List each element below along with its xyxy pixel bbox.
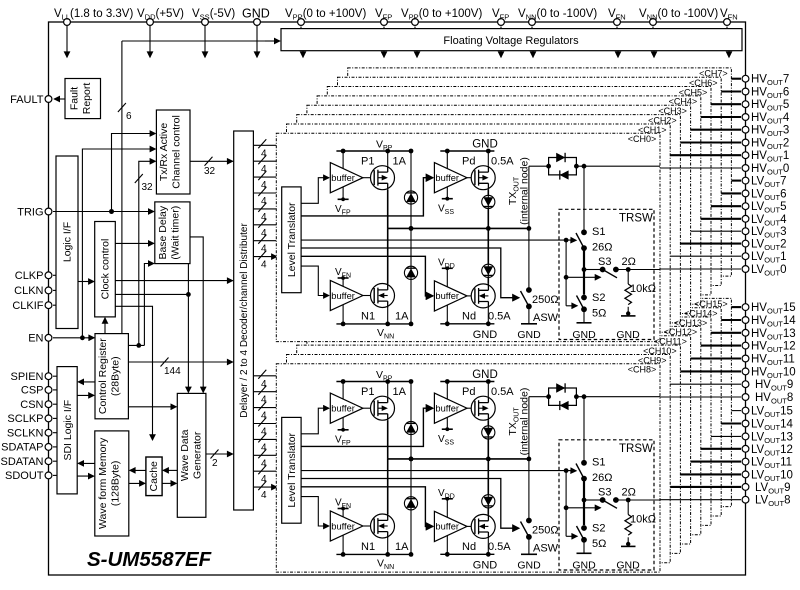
pin VPP top	[412, 19, 419, 26]
transistor N1 (NMOS 1A)	[371, 284, 395, 308]
wire: HVOUT7 stub	[731, 78, 741, 80]
svg-text:Base Delay: Base Delay	[157, 205, 169, 259]
svg-text:CLKN: CLKN	[14, 285, 43, 297]
svg-text:250Ω: 250Ω	[532, 294, 559, 306]
svg-text:SDATAN: SDATAN	[1, 456, 44, 468]
wire: 4-bit bus bottom ch2	[253, 407, 276, 409]
wire: N1 gate	[363, 295, 374, 297]
wire: Control Register to SDI Logic I/F	[78, 381, 95, 383]
wire: pin stub to Floating Voltage Regulators	[414, 27, 416, 29]
wire: Wave Data Generator to Cache	[163, 469, 177, 471]
damping diode below Pd	[482, 195, 495, 208]
pin VFP top	[381, 19, 388, 26]
pin LVOUT15	[742, 407, 749, 414]
block: Cache	[146, 457, 162, 496]
block: Tx/Rx Active Channel control	[156, 110, 190, 194]
pin VLL top	[64, 19, 71, 26]
wire: regulator output arrow	[653, 51, 655, 58]
pin LVOUT14	[742, 420, 749, 427]
pin HVOUT2	[742, 139, 749, 146]
wire: LVOUT9 stub	[670, 486, 741, 488]
bus slash 144	[161, 358, 169, 367]
wire: S3 to LV output node	[616, 269, 660, 271]
wire: Logic I/F to Clock control	[78, 281, 94, 283]
svg-text:GND: GND	[616, 329, 640, 341]
resistor 10k	[627, 270, 629, 285]
pin SCLKP	[45, 415, 52, 422]
wire: 4-bit bus top ch0	[253, 144, 276, 146]
pin HVOUT8	[742, 394, 749, 401]
wire: TX node to N1 drain	[387, 228, 389, 283]
wire: 4-bit bus bottom ch4	[253, 438, 276, 440]
wire: Wave form Memory to SDI Logic I/F	[78, 462, 95, 464]
wire: HVOUT5 stub	[711, 103, 741, 105]
svg-text:<CH15>: <CH15>	[694, 299, 728, 309]
svg-text:<CH9>: <CH9>	[638, 355, 667, 365]
wire: 4-bit bus bottom front channel	[253, 486, 277, 488]
svg-text:Delayer / 2 to 4 Decoder/chann: Delayer / 2 to 4 Decoder/channel Distrib…	[239, 223, 250, 418]
block: Logic I/F	[56, 156, 78, 329]
rail: V_PP top	[336, 150, 411, 152]
wire: 2-bit bus Wave Data Generator to Delayer	[206, 453, 233, 455]
svg-text:SCLKN: SCLKN	[7, 428, 44, 440]
bus slash 2	[211, 450, 219, 459]
svg-text:S3: S3	[598, 256, 611, 268]
wire: LVOUT10 stub	[680, 473, 741, 475]
wire: HVOUT9 stub	[670, 383, 741, 385]
pin HVOUT11	[742, 355, 749, 362]
svg-text:<CH5>: <CH5>	[679, 87, 708, 97]
wire: LVOUT6 stub	[721, 192, 741, 194]
wire: LT to N1 buffer	[301, 266, 329, 295]
svg-text:Wave Data: Wave Data	[179, 429, 191, 481]
switch S1 top contact	[581, 229, 587, 235]
switch ASW blade	[521, 291, 529, 306]
wire: 4-bit bus top front channel	[253, 256, 277, 258]
wire: SPI pin stub	[53, 417, 57, 419]
wire: supply arrow into chip	[66, 26, 68, 58]
svg-text:<CH1>: <CH1>	[638, 125, 667, 135]
wire: Clock control to Delayer	[115, 280, 232, 282]
wire: regulator output arrow	[500, 51, 502, 58]
pin VNN top	[650, 19, 657, 26]
svg-text:1A: 1A	[395, 311, 409, 323]
wire: LT to switch S1 control	[301, 239, 575, 241]
wire: regulator output arrow	[302, 51, 304, 58]
svg-text:GND: GND	[242, 7, 270, 21]
wire: Cache to Wave Data Generator	[162, 482, 176, 484]
wire: HVOUT13 stub	[711, 332, 741, 334]
svg-text:Floating Voltage Regulators: Floating Voltage Regulators	[443, 35, 579, 47]
svg-text:2: 2	[212, 458, 218, 469]
node: S3 tap	[582, 267, 587, 272]
block: Wave form Memory (128Byte)	[95, 431, 129, 536]
svg-text:CSP: CSP	[21, 385, 44, 397]
svg-text:SPIEN: SPIEN	[10, 371, 43, 383]
wire: HVOUT0 stub	[660, 167, 741, 169]
svg-text:<CH11>: <CH11>	[654, 337, 687, 347]
wire: TX node down to ASW	[528, 228, 530, 287]
svg-text:5Ω: 5Ω	[592, 308, 606, 320]
pin LVOUT8	[742, 496, 749, 503]
wire: LVOUT13 stub	[711, 435, 741, 437]
wire: LVOUT4 stub	[701, 218, 741, 220]
svg-text:SDOUT: SDOUT	[5, 470, 44, 482]
wire: 4-bit bus top ch2	[253, 176, 276, 178]
svg-text:(28Byte): (28Byte)	[110, 356, 122, 396]
channel box CH13	[327, 317, 711, 525]
wire: SPI pin stub	[53, 460, 57, 462]
svg-text:32: 32	[204, 166, 216, 177]
pin SCLKN	[45, 429, 52, 436]
wire: SPI pin stub	[53, 403, 57, 405]
rail: V_NN bottom	[336, 323, 411, 325]
svg-text:GND: GND	[472, 139, 498, 151]
wire: CLKN stub	[53, 289, 57, 291]
ground bar 10k	[621, 315, 636, 317]
wire: LVOUT2 stub	[680, 243, 741, 245]
svg-text:1A: 1A	[393, 156, 407, 168]
wire: 6-bit bus horizontal to FVR	[122, 40, 279, 42]
supply tap V_DD	[442, 267, 453, 269]
svg-text:Clock control: Clock control	[100, 239, 112, 300]
svg-text:<CH6>: <CH6>	[689, 78, 718, 88]
wire: supply arrow into chip	[256, 26, 258, 58]
wire: Wave form Memory to Cache	[129, 482, 145, 484]
wire: HVOUT15 stub	[731, 306, 741, 308]
wire: P1 gate	[363, 177, 374, 179]
block: TRSW transmit/receive switch	[559, 209, 654, 339]
damping diode above Nd	[482, 264, 495, 277]
switch S1 bottom contact	[581, 245, 587, 251]
pin VNN top	[529, 19, 536, 26]
wire: pin stub to Floating Voltage Regulators	[726, 27, 728, 29]
wire: to back-to-back diodes	[529, 165, 549, 167]
wire: LVOUT0 stub	[660, 268, 741, 270]
pin CSP	[45, 387, 52, 394]
pin LVOUT6	[742, 190, 749, 197]
channel box CH11	[307, 336, 691, 544]
ground bar S2	[577, 322, 592, 324]
pin LVOUT3	[742, 228, 749, 235]
pin LVOUT11	[742, 458, 749, 465]
pin SPIEN	[45, 373, 52, 380]
pin HVOUT10	[742, 368, 749, 375]
wire: LVOUT5 stub	[711, 205, 741, 207]
wire: Clock control to Base Delay	[115, 242, 154, 244]
svg-text:GND: GND	[473, 329, 498, 341]
svg-text:<CH8>: <CH8>	[628, 365, 657, 375]
pin FAULT	[45, 96, 52, 103]
switch ASW top contact	[526, 287, 532, 293]
wire: HVOUT2 stub	[680, 141, 741, 143]
pin LVOUT2	[742, 240, 749, 247]
node: bus junction	[136, 343, 141, 348]
wire: regulator output arrow	[532, 51, 534, 58]
block: SDI Logic I/F	[57, 367, 77, 494]
svg-text:144: 144	[164, 366, 181, 377]
block: Delayer / 2 to 4 Decoder/channel Distributer	[234, 131, 254, 510]
svg-text:Nd: Nd	[462, 311, 476, 323]
wire: P1 drain to TX node	[387, 190, 389, 229]
channel box CH7	[348, 68, 732, 276]
wire: LVOUT14 stub	[721, 422, 741, 424]
channel box CH15	[348, 298, 732, 506]
pin HVOUT9	[742, 381, 749, 388]
wire: 144-bit bus Control Register to Delayer	[128, 361, 232, 363]
wire: pin stub to Floating Voltage Regulators	[531, 27, 533, 29]
wire: LVOUT15 stub	[731, 410, 741, 412]
wire: SDI Logic I/F to Wave form Memory	[77, 475, 94, 477]
wire: HVOUT6 stub	[721, 90, 741, 92]
wire: arrow into FVR left edge	[265, 40, 280, 42]
bus slash 6	[118, 103, 126, 112]
wire: LT to Nd buffer	[301, 256, 433, 296]
svg-text:Wave form Memory: Wave form Memory	[97, 437, 109, 529]
wire: LVOUT12 stub	[701, 448, 741, 450]
wire: 4-bit bus top ch4	[253, 208, 276, 210]
pin HVOUT13	[742, 329, 749, 336]
svg-text:CLKIF: CLKIF	[12, 300, 43, 312]
switch S3 left contact	[600, 267, 606, 273]
wire: Nd gate	[467, 295, 475, 297]
svg-text:EN: EN	[28, 333, 43, 345]
svg-text:TRIG: TRIG	[17, 206, 43, 218]
wire: S3 control	[566, 276, 600, 278]
node: TRIG branch	[109, 209, 114, 214]
wire: LVOUT7 stub	[731, 180, 741, 182]
svg-text:<CH7>: <CH7>	[699, 69, 728, 79]
block: Level Translator	[282, 187, 301, 293]
svg-text:S-UM5587EF: S-UM5587EF	[87, 548, 212, 571]
wire: HVOUT8 stub	[660, 396, 741, 398]
pin VPP top	[298, 19, 305, 26]
wire: switch control vertical	[565, 240, 567, 306]
wire: Pd gate	[467, 177, 475, 179]
wire: S2 to GND	[583, 309, 585, 323]
pin VFP top	[498, 19, 505, 26]
wire: Clock control / Base Delay bottom link	[115, 293, 188, 295]
block: Control Register (28Byte)	[95, 334, 128, 419]
wire: 4-bit bus top ch6	[253, 240, 276, 242]
block: Floating Voltage Regulators	[281, 29, 742, 51]
wire: CLKIF stub	[53, 304, 57, 306]
svg-text:Channel control: Channel control	[171, 115, 183, 189]
channel box CH12	[317, 326, 701, 534]
pin CLKP	[45, 272, 52, 279]
wire: HVOUT3 stub	[691, 129, 741, 131]
wire: LVOUT1 stub	[670, 255, 741, 257]
wire: EN to Tx/Rx control	[82, 149, 155, 338]
pin GND top	[254, 19, 261, 26]
svg-text:S2: S2	[592, 292, 605, 304]
block: Fault Report	[65, 79, 101, 119]
pin LVOUT4	[742, 215, 749, 222]
node: 10k resistor bottom	[626, 311, 630, 315]
wire: Tx/Rx 32-bit bus to Delayer	[190, 160, 233, 162]
svg-text:N1: N1	[361, 311, 375, 323]
pin LVOUT5	[742, 203, 749, 210]
wire: LVOUT11 stub	[691, 461, 741, 463]
wire: HVOUT14 stub	[721, 319, 741, 321]
block: Base Delay (Wait timer)	[155, 202, 190, 264]
wire: HVOUT11 stub	[691, 357, 741, 359]
svg-text:<CH2>: <CH2>	[648, 115, 677, 125]
svg-text:32: 32	[142, 182, 154, 193]
svg-text:SDI Logic I/F: SDI Logic I/F	[62, 400, 74, 461]
svg-text:2Ω: 2Ω	[622, 256, 636, 268]
wire: pin stub to Floating Voltage Regulators	[300, 27, 302, 29]
wire: Pd source to GND	[487, 151, 489, 166]
wire: 4-bit bus bottom ch6	[253, 470, 276, 472]
supply tap V_FN	[338, 277, 349, 279]
svg-text:Fault: Fault	[69, 87, 81, 110]
node: S1 control junction	[564, 238, 569, 243]
wire: Clock control down to Cache area arrow	[115, 306, 152, 440]
pin VFN top	[614, 19, 621, 26]
svg-text:<CH10>: <CH10>	[643, 346, 677, 356]
pin HVOUT12	[742, 342, 749, 349]
pin SDATAN	[45, 458, 52, 465]
pin VFN top	[724, 19, 731, 26]
wire: S2 control	[566, 305, 577, 307]
pin HVOUT6	[742, 88, 749, 95]
pin SDATAP	[45, 444, 52, 451]
wire: LT to Pd buffer	[301, 178, 433, 216]
wire: HV output node to box edge	[576, 165, 660, 167]
wire: Nd source to GND	[487, 308, 489, 324]
pin CLKN	[45, 287, 52, 294]
pin VSS top	[202, 19, 209, 26]
svg-text:Tx/Rx Active: Tx/Rx Active	[158, 123, 170, 182]
block: Clock control	[95, 222, 116, 317]
wire: Cache to Wave form Memory	[130, 469, 146, 471]
svg-text:<CH4>: <CH4>	[669, 97, 698, 107]
wire: 6-bit bus vertical	[121, 41, 123, 334]
pin HVOUT15	[742, 304, 749, 311]
node: EN branch	[80, 335, 85, 340]
svg-text:SDATAP: SDATAP	[1, 442, 43, 454]
wire: 4-bit bus bottom ch0	[253, 375, 276, 377]
svg-text:(internal node): (internal node)	[519, 157, 531, 225]
wire: Base Delay right to Wave Data Generator	[190, 237, 203, 393]
wire: CLKP stub	[53, 274, 57, 276]
wire: regulator output arrow	[416, 51, 418, 58]
wire: LT to P1 buffer	[301, 178, 329, 204]
wire: Control Register to Clock control	[104, 318, 106, 334]
svg-text:FAULT: FAULT	[10, 94, 44, 106]
switch S2 bottom contact	[581, 306, 587, 312]
wire: SPI pin stub	[53, 432, 57, 434]
wire: N1 buffer supply	[342, 278, 344, 324]
wire: 32-bit bus to Tx/Rx control	[139, 161, 156, 345]
switch ASW bottom contact	[526, 304, 532, 310]
channel box CH5	[327, 87, 711, 295]
transistor Nd (NMOS 0.5A)	[471, 284, 495, 308]
svg-text:<CH14>: <CH14>	[684, 309, 718, 319]
svg-text:Generator: Generator	[192, 431, 204, 479]
svg-text:CLKP: CLKP	[15, 270, 44, 282]
switch S2 top contact	[581, 295, 587, 301]
svg-text:GND: GND	[517, 329, 541, 341]
svg-text:CSN: CSN	[20, 399, 43, 411]
svg-text:<CH12>: <CH12>	[664, 327, 698, 337]
wire: TRIG overlay	[53, 211, 153, 213]
switch S3 blade	[603, 270, 617, 278]
wire: pin stub to Floating Voltage Regulators	[652, 27, 654, 29]
pin HVOUT5	[742, 101, 749, 108]
channel box CH10	[297, 345, 681, 553]
wire: LVOUT8 stub	[660, 499, 741, 501]
ground bar ASW	[521, 323, 537, 325]
svg-text:P1: P1	[361, 156, 374, 168]
pin TRIG	[45, 208, 52, 215]
wire: SPI pin stub	[53, 474, 57, 476]
wire: HVOUT4 stub	[701, 116, 741, 118]
svg-text:6: 6	[126, 111, 132, 122]
switch S3 right contact	[613, 267, 619, 273]
wire: 4-bit bus top ch1	[253, 160, 276, 162]
wire: regulator output arrow	[383, 51, 385, 58]
wire: pin stub to Floating Voltage Regulators	[383, 27, 385, 29]
wire: Control Register to Base Delay	[144, 264, 153, 346]
svg-text:S1: S1	[592, 226, 605, 238]
clamp diode to V_PP	[404, 191, 417, 204]
supply tap V_SS	[442, 198, 453, 200]
channel block CH8 (copy of CH0 contents)	[276, 364, 660, 572]
svg-text:<CH0>: <CH0>	[628, 134, 657, 144]
wire: P1 buffer supply	[342, 151, 344, 199]
wire: LT to ASW control	[301, 248, 519, 298]
svg-text:ASW: ASW	[533, 312, 559, 324]
pin LVOUT13	[742, 433, 749, 440]
pin HVOUT1	[742, 152, 749, 159]
pin VDD top	[147, 19, 154, 26]
svg-text:Report: Report	[81, 83, 93, 115]
pin HVOUT0	[742, 165, 749, 172]
channel box CH6	[338, 77, 722, 285]
svg-text:Pd: Pd	[462, 156, 475, 168]
wire: Nd buffer supply	[446, 268, 448, 324]
node: TRSW branch	[582, 164, 587, 169]
pin HVOUT4	[742, 114, 749, 121]
transistor Pd (PMOS 0.5A)	[471, 166, 495, 190]
block: Wave Data Generator	[177, 393, 206, 517]
wire: SDI Logic I/F to Control Register	[77, 394, 94, 396]
svg-text:26Ω: 26Ω	[592, 242, 612, 254]
wire: TX_OUT internal node	[388, 227, 529, 229]
bus slash 32	[205, 157, 213, 166]
wire: Pd drain via diode to TX	[487, 190, 489, 229]
rail: GND top	[440, 150, 494, 152]
wire: Fault Report to FAULT pin	[54, 98, 65, 100]
wire: pin stub to Floating Voltage Regulators	[616, 27, 618, 29]
wire: supply arrow into chip	[149, 26, 151, 58]
wire: SPI pin stub	[53, 446, 57, 448]
svg-text:VSS(-5V): VSS(-5V)	[192, 8, 235, 22]
svg-text:4: 4	[261, 260, 267, 271]
channel box CH0 front	[276, 133, 660, 341]
wire: P1 source to V_PP	[387, 151, 389, 166]
wire: SPI pin stub	[53, 375, 57, 377]
wire: HVOUT10 stub	[680, 370, 741, 372]
node: 10k resistor tap	[626, 267, 631, 272]
svg-text:<CH3>: <CH3>	[658, 106, 687, 116]
switch S1 blade	[576, 233, 584, 248]
wire: HVOUT12 stub	[701, 345, 741, 347]
svg-text:GND: GND	[572, 329, 596, 341]
pin HVOUT7	[742, 75, 749, 82]
